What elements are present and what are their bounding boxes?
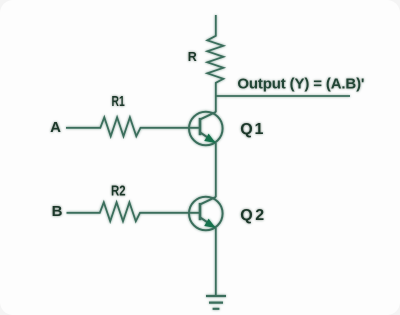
svg-text:2: 2 xyxy=(255,207,264,224)
svg-text:Q: Q xyxy=(240,207,252,224)
svg-text:Output (Y) = (A.B)': Output (Y) = (A.B)' xyxy=(237,76,364,93)
svg-text:R1: R1 xyxy=(112,94,125,110)
svg-text:B: B xyxy=(52,203,63,220)
svg-text:1: 1 xyxy=(255,121,264,138)
svg-text:R2: R2 xyxy=(111,184,126,200)
svg-text:A: A xyxy=(50,119,61,136)
svg-text:R: R xyxy=(188,50,197,64)
svg-text:Q: Q xyxy=(240,121,252,138)
